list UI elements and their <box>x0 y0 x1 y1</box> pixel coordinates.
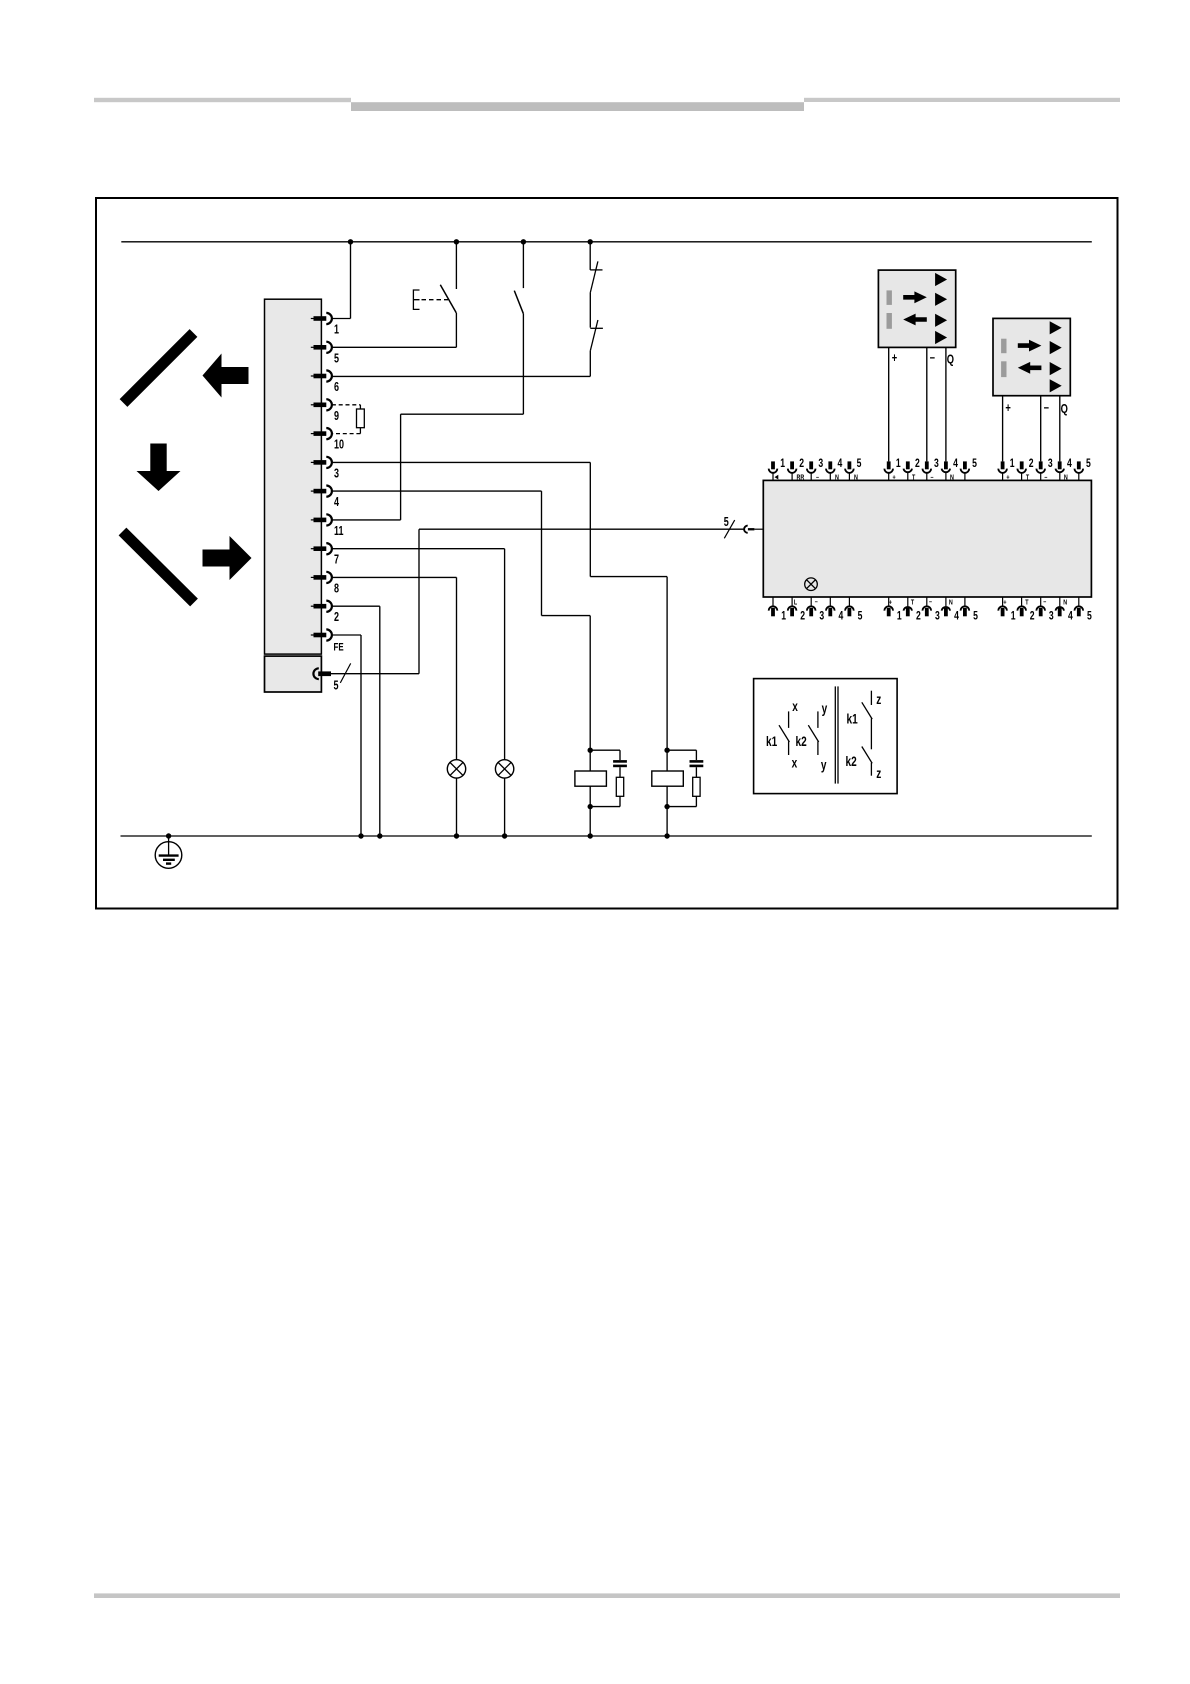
lamp H1 <box>447 760 465 778</box>
switch S1 blade <box>440 285 456 313</box>
terminal block X1 lower section <box>265 656 322 692</box>
legend divider double line <box>834 686 836 783</box>
svg-text:5: 5 <box>334 352 339 366</box>
terminal X1:1 <box>311 318 314 320</box>
wire R1 to X1:10 (dashed) <box>359 428 361 434</box>
wire X1:1 to bus <box>332 318 351 320</box>
wire S3 a-b link <box>589 293 591 328</box>
sensor B2 arrow left <box>1018 362 1042 374</box>
switch S2 blade <box>514 291 523 314</box>
capacitor C-K1 <box>613 760 627 763</box>
svg-text:k1: k1 <box>766 733 777 749</box>
A1 bottom pin 2 <box>1021 597 1023 606</box>
A1 bottom pin 1 <box>888 597 890 606</box>
svg-text:T: T <box>912 474 915 482</box>
svg-text:5: 5 <box>334 679 339 693</box>
svg-text:4: 4 <box>1067 458 1072 471</box>
svg-text:3: 3 <box>1048 458 1053 471</box>
svg-text:2: 2 <box>1029 458 1034 471</box>
svg-text:3: 3 <box>1049 610 1054 623</box>
sensor B2 output triangles <box>1050 321 1062 334</box>
terminal X1:7 <box>311 548 314 550</box>
svg-text:5: 5 <box>724 516 729 530</box>
svg-text:7: 7 <box>334 553 339 567</box>
svg-text:3: 3 <box>935 610 940 623</box>
node K1-bus <box>588 833 593 838</box>
svg-text:4: 4 <box>838 458 843 471</box>
svg-text:Q: Q <box>947 353 954 367</box>
A1 bottom pin 5 <box>848 597 850 606</box>
terminal X1:6 <box>311 375 314 377</box>
svg-text:5: 5 <box>857 458 862 471</box>
svg-text:1: 1 <box>781 610 786 623</box>
svg-text:T: T <box>1026 474 1029 482</box>
sensor B1 arrow right <box>903 291 927 303</box>
switch S1 actuator link (dashed) <box>422 299 449 301</box>
wire X1:5 cable to A1 <box>331 673 419 675</box>
A1 bottom pin 4 <box>945 597 947 606</box>
svg-text:2: 2 <box>1030 610 1035 623</box>
wire bus to S2 <box>522 242 524 288</box>
svg-text:4: 4 <box>839 610 844 623</box>
svg-text:2: 2 <box>334 611 339 625</box>
sensor B2 body <box>993 318 1070 395</box>
A1 top pin 4 <box>829 473 831 481</box>
switch S1 manual actuator E <box>413 290 419 309</box>
node H2-bus <box>502 833 507 838</box>
svg-text:–: – <box>1043 598 1046 606</box>
A1 top pin 4 <box>1059 473 1061 481</box>
A1 top pin 3 <box>1040 473 1042 481</box>
A1 bottom pin 5 <box>964 597 966 606</box>
svg-text:2: 2 <box>799 458 804 471</box>
wire X1:3 to K2 <box>332 461 590 463</box>
wire X1:FE to N bus <box>332 634 361 636</box>
sensor B1 arrow left <box>903 314 927 326</box>
cable marker slash 5-core (right) <box>724 520 734 538</box>
svg-text:11: 11 <box>334 525 344 539</box>
svg-text:–: – <box>816 474 819 482</box>
svg-text:N: N <box>835 474 839 482</box>
resistor R-K2 <box>693 777 700 796</box>
svg-text:1: 1 <box>1011 610 1016 623</box>
svg-text:k1: k1 <box>847 711 858 727</box>
legend box <box>754 679 898 794</box>
wire K1 to N bus <box>589 807 591 836</box>
svg-text:–: – <box>931 474 934 482</box>
wire B2 + to A1 <box>1002 396 1004 462</box>
svg-text:2: 2 <box>916 610 921 623</box>
svg-text:x: x <box>792 755 798 771</box>
legend contact k2 (y-y) <box>817 711 819 728</box>
terminal X1:3 <box>311 461 314 463</box>
svg-text:4: 4 <box>953 458 958 471</box>
svg-text:2: 2 <box>800 610 805 623</box>
terminal X1:10 <box>311 433 314 435</box>
terminal block X1 body <box>265 299 322 654</box>
terminal X1:2 <box>311 605 314 607</box>
svg-text:y: y <box>822 700 828 716</box>
svg-text:T: T <box>1025 599 1028 607</box>
terminal X1:8 <box>311 576 314 578</box>
arrow left (retract) <box>203 354 249 398</box>
svg-text:+: + <box>892 352 898 366</box>
wire bus to S1 <box>455 242 457 289</box>
svg-text:1: 1 <box>334 323 339 337</box>
node K2 top <box>664 748 669 753</box>
switch S3 contact a blade <box>590 261 598 292</box>
svg-text:–: – <box>929 598 932 606</box>
A1 bottom pin 3 <box>1040 597 1042 606</box>
svg-text:+: + <box>1006 474 1009 482</box>
svg-text:1: 1 <box>780 458 785 471</box>
node X1:2-bus <box>377 833 382 838</box>
A1 bottom pin 3 <box>810 597 812 606</box>
node bus-S3 <box>588 239 593 244</box>
A1 top pin labels group1 <box>775 475 779 480</box>
wire H1 to N bus <box>456 778 458 836</box>
legend contact k1 (x-x) <box>788 711 790 728</box>
wire S1 to X1:5 <box>455 313 457 347</box>
wire K2 RC branch <box>667 749 696 751</box>
svg-text:5: 5 <box>1087 610 1092 623</box>
svg-text:8: 8 <box>334 582 339 596</box>
svg-text:–: – <box>1044 401 1049 415</box>
svg-text:5: 5 <box>973 610 978 623</box>
svg-text:4: 4 <box>954 610 959 623</box>
wire B1 - to A1 <box>926 347 928 461</box>
svg-text:6: 6 <box>334 381 339 395</box>
svg-text:+: + <box>889 599 892 607</box>
arrow blind-open diagonal <box>124 333 194 403</box>
svg-text:k2: k2 <box>846 753 857 769</box>
svg-text:Q: Q <box>1061 403 1068 417</box>
node K1 top <box>588 748 593 753</box>
A1 bottom pin 4 <box>1059 597 1061 606</box>
svg-text:N: N <box>950 474 954 482</box>
svg-text:y: y <box>821 757 827 773</box>
legend contact k2 (z bottom) <box>862 747 872 764</box>
svg-text:2: 2 <box>915 458 920 471</box>
terminal X1:5 <box>311 346 314 348</box>
svg-text:T: T <box>911 599 914 607</box>
svg-text:N: N <box>949 599 953 607</box>
svg-text:–: – <box>930 351 935 365</box>
node K2 bottom <box>664 804 669 809</box>
svg-text:1: 1 <box>897 610 902 623</box>
A1 bottom pin 2 <box>791 597 793 606</box>
A1 top pin 2 <box>907 473 909 481</box>
relay coil K2 <box>652 771 684 786</box>
svg-text:3: 3 <box>934 458 939 471</box>
wire X1:9 to R1 (dashed) <box>332 404 361 406</box>
sensor B1 body <box>878 270 955 347</box>
relay coil K1 <box>575 771 607 786</box>
svg-text:–: – <box>1044 474 1047 482</box>
wire B1 + to A1 <box>888 347 890 461</box>
svg-text:5: 5 <box>972 458 977 471</box>
A1 top pin 5 <box>964 473 966 481</box>
A1 top pin 3 <box>926 473 928 481</box>
wire bus to S3 <box>589 242 591 270</box>
svg-text:10: 10 <box>334 438 344 452</box>
capacitor C-K2 <box>690 760 704 763</box>
node K2-bus <box>664 833 669 838</box>
svg-text:1: 1 <box>896 458 901 471</box>
svg-text:N: N <box>1064 474 1068 482</box>
wire X1:8 to H1 <box>332 576 457 578</box>
resistor R1 <box>357 409 365 428</box>
sensor B2 arrow right <box>1018 340 1042 352</box>
svg-text:RR: RR <box>797 474 805 482</box>
A1 top pin 2 <box>1021 473 1023 481</box>
A1 bottom pin 1 <box>772 597 774 606</box>
controller A1 body <box>763 480 1091 597</box>
terminal X1:4 <box>311 490 314 492</box>
terminal X1:FE <box>311 634 314 636</box>
arrow blind-close diagonal <box>123 532 195 603</box>
wire B1 Q to A1 <box>945 347 947 461</box>
A1 bottom pin 2 <box>907 597 909 606</box>
ground PE symbol <box>166 833 171 838</box>
A1 bottom pin 4 <box>829 597 831 606</box>
svg-text:k2: k2 <box>796 733 807 749</box>
wire S2 to X1:11 <box>522 314 524 415</box>
svg-text:+: + <box>893 474 896 482</box>
wire through coil <box>589 750 591 806</box>
svg-text:z: z <box>876 691 881 707</box>
switch S3 contact a fixed tick <box>590 269 602 271</box>
legend contact k1 (z top) <box>870 691 872 705</box>
svg-text:x: x <box>792 698 798 714</box>
svg-text:L: L <box>794 599 797 607</box>
A1 bottom pin 1 <box>1002 597 1004 606</box>
svg-text:FE: FE <box>334 642 345 655</box>
wire B2 Q to A1 <box>1059 396 1061 462</box>
wire B2 - to A1 <box>1040 396 1042 462</box>
connector plug into A1 <box>744 526 748 533</box>
A1 top pin 2 <box>791 473 793 481</box>
node bus-S1 <box>454 239 459 244</box>
terminal X1:9 <box>311 404 314 406</box>
A1 bottom pin 3 <box>926 597 928 606</box>
A1 top pin 3 <box>810 473 812 481</box>
svg-text:5: 5 <box>1086 458 1091 471</box>
wire S3 to X1:6 <box>589 351 591 377</box>
wire X1:7 to H2 <box>332 548 505 550</box>
A1 bottom pin 5 <box>1078 597 1080 606</box>
wire H2 to N bus <box>504 778 506 836</box>
node bus-T1 <box>348 239 353 244</box>
node H1-bus <box>454 833 459 838</box>
svg-text:3: 3 <box>819 610 824 623</box>
wire N/PE bus (bottom) <box>121 835 1092 837</box>
svg-text:5: 5 <box>858 610 863 623</box>
sensor B2 gray bars <box>1001 339 1006 354</box>
svg-text:N: N <box>854 474 858 482</box>
arrow right (extend) <box>203 536 252 580</box>
A1 top pin 1 <box>888 473 890 481</box>
wire K2 to N bus <box>666 807 668 836</box>
svg-text:3: 3 <box>818 458 823 471</box>
A1 top pin 1 <box>1002 473 1004 481</box>
svg-text:9: 9 <box>334 409 339 423</box>
svg-text:z: z <box>876 765 881 781</box>
lamp symbol inside A1 <box>805 578 818 591</box>
wire L supply bus (top) <box>121 241 1092 243</box>
node bus-S2 <box>521 239 526 244</box>
A1 top pin 5 <box>1078 473 1080 481</box>
svg-text:+: + <box>1003 599 1006 607</box>
svg-text:N: N <box>1063 599 1067 607</box>
switch S3 contact b fixed tick <box>590 327 603 329</box>
wire through coil <box>666 750 668 806</box>
lamp H2 <box>495 760 513 778</box>
sensor B1 gray bars <box>887 290 892 305</box>
switch S3 contact b blade <box>590 320 598 351</box>
resistor R-K1 <box>616 777 623 796</box>
node FE-bus <box>358 833 363 838</box>
terminal X1:11 <box>311 519 314 521</box>
wire K1 RC branch <box>590 749 620 751</box>
cable marker slash 5-core (left) <box>340 663 350 683</box>
svg-text:–: – <box>815 598 818 606</box>
node K1 bottom <box>588 804 593 809</box>
svg-text:3: 3 <box>334 467 339 481</box>
terminal X1:5 (PE side) <box>313 668 318 679</box>
arrow down <box>137 444 181 492</box>
svg-text:4: 4 <box>334 496 339 510</box>
wire X1:4 to K1 <box>332 490 542 492</box>
A1 top pin 5 <box>848 473 850 481</box>
sensor B1 output triangles <box>935 273 947 286</box>
wire X1:2 to N bus <box>332 605 380 607</box>
A1 top pin 1 <box>772 473 774 481</box>
A1 top pin 4 <box>945 473 947 481</box>
svg-text:4: 4 <box>1068 610 1073 623</box>
svg-text:+: + <box>1005 401 1011 415</box>
svg-text:1: 1 <box>1010 458 1015 471</box>
